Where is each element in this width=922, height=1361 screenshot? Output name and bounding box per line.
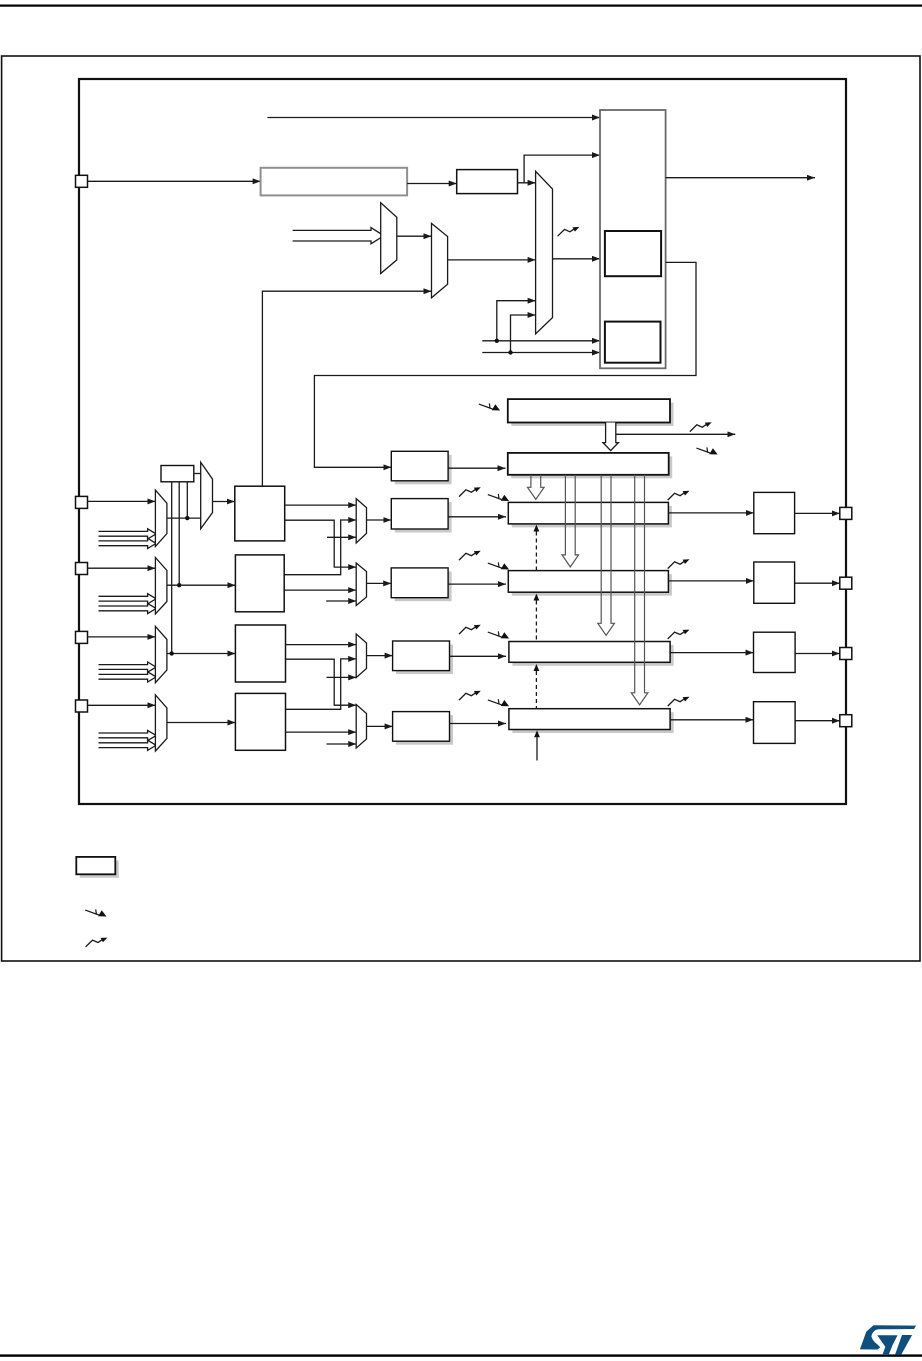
wire TI4FP4 to IC4 mux: [286, 731, 357, 733]
block: CH4 input filter and edge detector: [235, 693, 285, 750]
wire CH3 pin to edge detector: [88, 636, 156, 638]
XOR box: [161, 466, 194, 482]
mux CH1 edge detector: [155, 490, 167, 546]
mux ITR selection: [381, 203, 397, 274]
bottom footer rule: [0, 1354, 922, 1356]
pin TIMx_CH4: [76, 700, 88, 712]
block: IC1 prescaler shadow: [395, 502, 452, 532]
block: capture/compare 4 register: [509, 709, 670, 730]
block: IC1 prescaler: [391, 499, 448, 529]
block: capture/compare 1 register shadow: [512, 506, 672, 528]
pin TIMx_CH3 output: [840, 648, 852, 660]
open arrow ITR0-ITR3 bundle into ITR mux: [293, 228, 384, 244]
junction TI1 XOR tap: [185, 516, 189, 520]
wire CK_PSC from trigger controller to prescaler: [314, 262, 696, 467]
open arrow CH1 aux b: [99, 538, 157, 548]
pin TIMx_CH2: [76, 563, 88, 575]
wire TRC to IC4 mux: [327, 743, 357, 745]
block: CNT counter: [508, 453, 669, 475]
wire IC2PS to CCR2: [448, 583, 506, 585]
pin TIMx_CH2 output: [840, 577, 852, 589]
block: capture/compare 1 register: [508, 502, 668, 524]
block: IC3 prescaler: [393, 641, 450, 671]
wire TI1 mux to CH1 filter: [213, 501, 235, 503]
wire OC4 to pin: [795, 720, 840, 722]
wire IC4PS to CCR4: [450, 723, 507, 725]
block: CH1 input filter and edge detector: [235, 486, 285, 541]
wire TI1 to XOR and TI1 mux: [167, 517, 201, 519]
block: capture/compare 4 register shadow: [512, 712, 673, 733]
block: capture/compare 3 register shadow: [512, 645, 673, 666]
lightning event CC3: [488, 631, 509, 638]
interrupt squiggle IC2: [459, 551, 481, 560]
dashed compare link CCR4 to CCR3: [535, 671, 537, 709]
wire IC1 to prescaler: [367, 519, 392, 521]
wire OC2 to pin: [795, 582, 840, 584]
pin TIMx_CH4 output: [840, 715, 852, 727]
open arrow CH2 aux b: [99, 603, 157, 613]
block: CNT counter shadow: [511, 456, 672, 478]
block: PSC prescaler: [391, 451, 448, 481]
block: encoder interface: [605, 231, 661, 276]
junction TI1FP1: [495, 339, 499, 343]
wire OC3 to pin: [795, 653, 840, 655]
interrupt squiggle CC4: [668, 697, 690, 706]
interrupt squiggle TRGI: [558, 227, 580, 236]
wire CH4 pin to edge detector: [88, 704, 156, 706]
junction TI2 XOR tap: [177, 583, 181, 587]
wire TI2FP2 to IC2 mux: [284, 589, 356, 591]
mux TRGI main: [536, 171, 553, 333]
block arrow CNT to CCR1: [528, 475, 545, 500]
open arrow CH4 aux b: [99, 740, 157, 750]
interrupt squiggle CC1: [668, 491, 690, 500]
pin TIMx_CH3: [76, 631, 88, 643]
block: ETR polarity selection and edge detector (gray border): [261, 168, 408, 196]
wire TI4 to CH4 filter: [167, 722, 236, 724]
block: output control 3: [754, 632, 796, 672]
wire IC2 to prescaler: [367, 582, 392, 584]
block arrow ARR to CNT: [603, 423, 619, 451]
wire TI2FP1 up to IC1 mux: [284, 520, 356, 575]
wire TI1F_ED from CH1 filter to submux: [262, 291, 431, 486]
wire XOR output to TI1 mux: [194, 473, 201, 475]
wire TRC to IC1 mux: [327, 536, 356, 538]
lightning event CC4: [488, 699, 509, 706]
interrupt squiggle IC3: [459, 625, 481, 634]
block: CH3 input filter and edge detector: [235, 625, 285, 682]
block: IC4 prescaler: [393, 712, 450, 742]
open arrow CH3 aux b: [99, 672, 157, 682]
block arrow CNT to CCR3: [598, 475, 615, 636]
block: PSC prescaler shadow: [395, 455, 452, 485]
wire TI1FP1 to IC1 mux: [285, 504, 357, 506]
wire TI2FP2 riser to TRGI mux: [511, 315, 536, 353]
XOR input stub from TI3: [171, 482, 173, 654]
block: IC2 prescaler: [391, 568, 448, 598]
lightning event ARR left: [479, 403, 500, 410]
wire TI2 to CH2 filter: [167, 584, 236, 586]
wire TRC to IC2 mux: [326, 600, 356, 602]
block arrow CNT to CCR2: [562, 475, 579, 567]
wire OC4REF to output control 4: [670, 719, 753, 721]
mux IC3 selection: [356, 634, 366, 678]
open arrow CH3 aux a: [99, 662, 157, 672]
interrupt squiggle U: [690, 422, 712, 431]
block: slave mode controller: [605, 322, 661, 363]
wire TI1FP2 down to IC2 mux: [285, 520, 357, 567]
block: trigger controller (gray border): [600, 110, 666, 368]
block: auto-reload register shadow: [511, 403, 673, 426]
lightning event CC1: [488, 494, 509, 501]
block: ETR input filter: [457, 170, 518, 194]
block: output control 1: [754, 492, 795, 533]
wire ETRF riser to trigger controller: [524, 155, 600, 183]
wire ETR to polarity box: [88, 180, 261, 182]
block: output control 2: [754, 562, 795, 603]
mux CH2 edge detector: [155, 558, 167, 615]
wire TI1FP1 riser to TRGI mux: [497, 301, 536, 341]
block: auto-reload register: [508, 399, 670, 422]
wire polarity box to input filter: [407, 183, 457, 185]
wire IC4 to prescaler: [367, 725, 393, 727]
mux TI1 selection: [201, 462, 213, 529]
wire CH2 pin to edge detector: [88, 567, 156, 569]
block: output control 4: [754, 702, 796, 744]
pin TIMx_ETR: [76, 175, 88, 187]
figure frame: [2, 56, 920, 961]
block: IC3 prescaler shadow: [396, 645, 453, 675]
wire TI3 to CH3 filter: [167, 653, 236, 655]
mux IC2 selection: [356, 563, 366, 606]
wire ITR mux to TRGI submux: [397, 235, 432, 237]
lightning event CC2: [488, 562, 509, 569]
lightning event U: [696, 447, 717, 454]
interrupt squiggle IC4: [459, 691, 481, 700]
top header rule: [0, 5, 922, 7]
wire CK_CNT prescaler to counter: [448, 467, 505, 469]
wire internal clock CK_INT to trigger controller: [267, 117, 600, 119]
wire OC1REF to output control 1: [668, 512, 753, 514]
mux IC4 selection: [356, 705, 366, 749]
block: IC4 prescaler shadow: [396, 715, 453, 745]
XOR input stub from TI2: [178, 482, 180, 585]
wire ETRF to TRGI mux: [518, 182, 536, 184]
wire TRGO output: [666, 177, 815, 179]
wire TI1FP1 to trigger controller: [482, 340, 600, 342]
wire ETRF to CCR4 compare: [536, 737, 538, 760]
block arrow CNT to CCR4: [631, 475, 648, 705]
mux IC1 selection: [356, 499, 366, 543]
wire CH1 pin to edge detector: [88, 500, 156, 502]
mux CH3 edge detector: [155, 626, 167, 682]
interrupt squiggle CC3: [668, 630, 690, 639]
legend register box: [76, 857, 115, 874]
open arrow CH4 aux a: [99, 730, 157, 740]
legend: [76, 857, 119, 947]
junction TI3 XOR tap: [170, 651, 174, 655]
wire submux to TRGI mux: [448, 259, 536, 261]
wire OC2REF to output control 2: [668, 580, 753, 582]
diagram border: [79, 79, 846, 804]
block: capture/compare 2 register: [508, 571, 668, 593]
legend event lightning: [85, 909, 106, 916]
wire U update event: [616, 433, 736, 435]
open arrow CH1 aux a: [99, 529, 157, 539]
wire TI3FP3 to IC3 mux: [286, 644, 357, 646]
wire TI3FP4 down to IC4 mux: [286, 659, 357, 705]
XOR input stub from TI1: [186, 482, 188, 518]
wire TI2FP2 to trigger controller: [482, 352, 600, 354]
legend register box shadow: [80, 860, 119, 877]
dashed compare link CCR3 to CCR2: [535, 601, 537, 642]
wire OC3REF to output control 3: [670, 652, 753, 654]
wire IC3PS to CCR3: [450, 655, 507, 657]
wire OC1 to pin: [795, 512, 840, 514]
open arrow CH2 aux a: [99, 594, 157, 604]
wire TRGI to trigger controller: [553, 258, 601, 260]
block: capture/compare 3 register: [509, 642, 670, 663]
dashed compare link CCR2 to CCR1: [535, 532, 537, 571]
legend interrupt squiggle: [86, 938, 108, 947]
block: CH2 input filter and edge detector: [235, 555, 284, 612]
mux TRGI selection stage 2: [432, 223, 448, 297]
ST logo: [860, 1325, 916, 1355]
block: IC2 prescaler shadow: [395, 571, 452, 601]
wire IC1PS to CCR1: [448, 516, 506, 518]
mux CH4 edge detector: [155, 695, 167, 751]
junction TI2FP2: [508, 350, 512, 354]
wire IC3 to prescaler: [367, 655, 393, 657]
pin TIMx_CH1 output: [840, 507, 852, 519]
block: capture/compare 2 register shadow: [512, 574, 672, 596]
pin TIMx_CH1: [76, 496, 88, 508]
wire TI4FP3 up to IC3 mux: [286, 659, 357, 709]
interrupt squiggle CC2: [668, 559, 690, 568]
wire TRC to IC3 mux: [327, 676, 357, 678]
interrupt squiggle IC1: [459, 487, 481, 496]
